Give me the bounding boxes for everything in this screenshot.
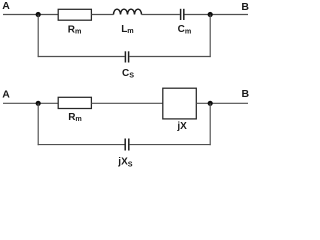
svg-text:B: B — [241, 1, 249, 13]
svg-text:Cm: Cm — [178, 24, 192, 36]
wire — [38, 144, 125, 146]
wire — [3, 102, 59, 104]
wire — [91, 14, 113, 16]
wire — [38, 56, 125, 58]
svg-text:Lm: Lm — [121, 24, 134, 35]
wire — [185, 14, 249, 16]
node junction — [208, 12, 213, 17]
capacitor jX_S — [125, 139, 129, 151]
svg-text:Rm: Rm — [68, 25, 82, 36]
wire — [196, 102, 248, 104]
svg-text:B: B — [242, 88, 250, 100]
wire — [209, 103, 211, 145]
wire — [129, 56, 211, 58]
resistor R_m (bottom) — [58, 97, 91, 108]
wire — [37, 103, 39, 145]
capacitor C_m — [181, 9, 184, 20]
wire — [37, 15, 39, 58]
wire — [129, 144, 211, 146]
wire — [3, 14, 59, 16]
wire — [91, 102, 162, 104]
wire — [142, 14, 180, 16]
reactance box jX — [163, 88, 197, 119]
node junction — [36, 101, 41, 106]
inductor L_m — [114, 9, 142, 14]
svg-text:Rm: Rm — [68, 112, 82, 123]
node junction — [208, 101, 213, 106]
resistor R_m — [58, 9, 91, 20]
capacitor C_S — [125, 51, 128, 62]
wire — [209, 15, 211, 58]
svg-text:A: A — [2, 0, 10, 12]
svg-text:CS: CS — [122, 68, 134, 80]
svg-text:jX: jX — [176, 121, 187, 132]
node junction — [36, 12, 41, 17]
svg-text:A: A — [2, 88, 10, 100]
